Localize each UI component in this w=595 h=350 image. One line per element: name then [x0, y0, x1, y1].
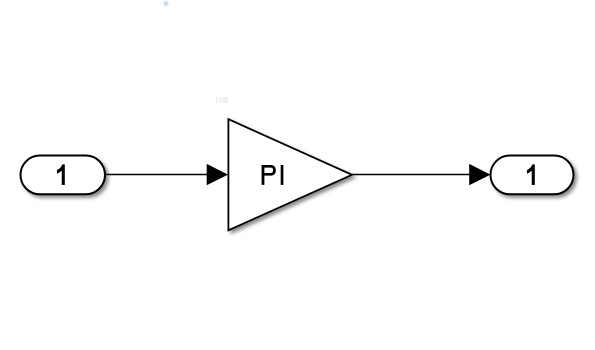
- outport block Out1: [491, 156, 574, 195]
- arrowhead into gain: [207, 164, 228, 185]
- outport label 1: [527, 164, 535, 185]
- inport label 1: [57, 164, 65, 185]
- arrowhead into Out1: [469, 164, 490, 185]
- guide dot (light blue): [164, 1, 169, 6]
- gain block PI (triangle): [228, 119, 352, 230]
- faint watermark marks: [216, 97, 228, 103]
- wire In1 to gain: [106, 174, 209, 176]
- gain label PI: [262, 165, 276, 185]
- wire gain to Out1: [352, 174, 471, 176]
- inport block In1: [21, 156, 106, 195]
